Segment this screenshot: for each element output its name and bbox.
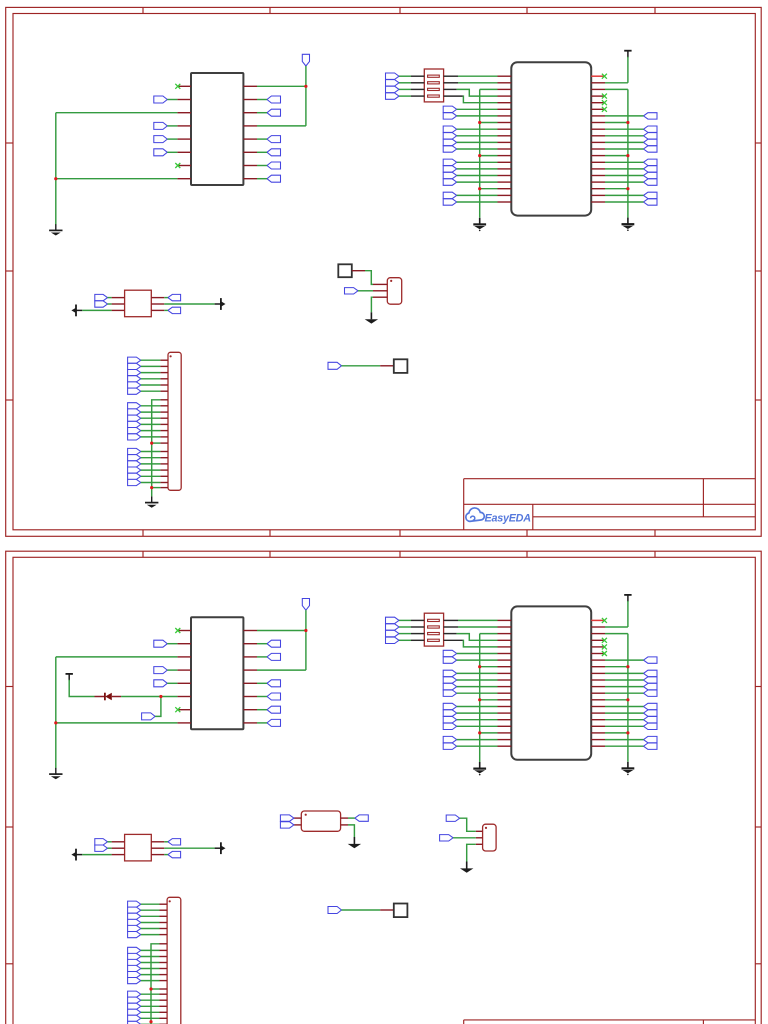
connector J2 xyxy=(167,897,181,1024)
net flag xyxy=(154,122,168,129)
net flag xyxy=(443,139,457,145)
net flag xyxy=(443,179,457,185)
junction xyxy=(626,665,629,668)
wire xyxy=(358,290,373,292)
wire xyxy=(457,194,498,196)
net flag xyxy=(128,370,141,376)
wire xyxy=(164,841,168,843)
net flag xyxy=(386,630,400,636)
wire xyxy=(167,643,177,645)
wire xyxy=(411,82,424,84)
net flag xyxy=(128,953,141,959)
wire xyxy=(605,122,628,124)
no-connect X xyxy=(602,74,607,79)
wire xyxy=(141,949,160,951)
wire xyxy=(605,659,644,661)
net flag xyxy=(644,736,658,742)
net flag xyxy=(443,650,457,656)
net flag xyxy=(128,382,141,388)
junction xyxy=(149,1020,152,1023)
wire xyxy=(480,122,498,124)
wire xyxy=(141,974,160,976)
wire xyxy=(108,847,112,849)
border tick xyxy=(269,530,271,537)
wire xyxy=(141,1017,160,1019)
wire xyxy=(444,82,458,84)
wire xyxy=(371,297,373,312)
wire xyxy=(305,66,307,126)
no-connect X xyxy=(175,84,180,89)
wire xyxy=(444,639,463,641)
net flag xyxy=(128,959,141,965)
net flag xyxy=(128,901,141,907)
no-connect X xyxy=(175,628,180,633)
wire xyxy=(141,956,160,958)
wire xyxy=(141,430,161,432)
TP1 pin xyxy=(352,270,365,272)
wire xyxy=(141,463,161,465)
pin 1 right (highlight) xyxy=(591,619,605,621)
crystal X1 xyxy=(125,290,152,317)
wire xyxy=(82,854,111,856)
net flag xyxy=(267,136,281,143)
junction xyxy=(626,187,629,190)
net flag xyxy=(128,403,141,409)
net flag xyxy=(128,919,141,925)
wire xyxy=(605,115,644,117)
power bar xyxy=(66,674,73,681)
wire xyxy=(164,303,214,305)
wire xyxy=(457,692,498,694)
wire xyxy=(108,297,112,299)
net flag xyxy=(443,677,457,683)
wire xyxy=(164,309,168,311)
wire xyxy=(411,95,424,97)
net flag xyxy=(443,703,457,709)
wire xyxy=(167,669,177,671)
net flag xyxy=(644,192,658,198)
wire xyxy=(457,175,498,177)
power net flag xyxy=(302,599,309,611)
border tick xyxy=(755,270,761,272)
net flag xyxy=(267,640,281,647)
border tick xyxy=(269,551,271,557)
wire xyxy=(141,922,160,924)
junction xyxy=(626,121,629,124)
wire xyxy=(605,626,628,628)
ground xyxy=(622,218,635,231)
wire xyxy=(444,619,458,621)
wire xyxy=(605,699,628,701)
op-amp U3 xyxy=(191,617,243,729)
wire xyxy=(257,165,267,167)
wire xyxy=(457,686,498,688)
net flag xyxy=(644,670,658,676)
net flag xyxy=(128,376,141,382)
net flag xyxy=(128,907,141,913)
net flag xyxy=(443,166,457,172)
wire xyxy=(411,88,424,90)
border tick xyxy=(142,530,144,537)
net flag xyxy=(644,199,658,205)
junction xyxy=(150,486,153,489)
net flag xyxy=(443,657,457,663)
wire xyxy=(457,719,498,721)
net flag xyxy=(386,637,400,643)
wire xyxy=(141,993,160,995)
wire xyxy=(257,99,267,101)
wire xyxy=(141,475,161,477)
net flag xyxy=(280,822,294,828)
wire xyxy=(164,297,168,299)
wire xyxy=(480,102,498,104)
no-connect X xyxy=(602,618,607,623)
wire xyxy=(257,696,267,698)
border tick xyxy=(654,551,656,557)
net flag xyxy=(644,172,658,178)
net flag xyxy=(128,972,141,978)
wire xyxy=(605,148,644,150)
port arrow xyxy=(71,849,82,861)
wire xyxy=(257,151,267,153)
net flag xyxy=(443,710,457,716)
net flag xyxy=(128,932,141,938)
net flag xyxy=(128,965,141,971)
ground xyxy=(473,218,486,231)
net flag xyxy=(328,907,342,914)
net flag xyxy=(644,710,658,716)
wire xyxy=(108,303,112,305)
net flag xyxy=(128,925,141,931)
border tick xyxy=(654,7,656,13)
wire xyxy=(458,82,498,84)
border tick xyxy=(526,551,528,557)
wire xyxy=(151,944,160,1024)
no-connect X xyxy=(602,638,607,643)
MCU U2 xyxy=(511,62,591,215)
wire xyxy=(627,89,629,217)
no-connect X xyxy=(602,94,607,99)
U pins right xyxy=(243,631,257,723)
net flag xyxy=(95,839,108,845)
regulator U5 xyxy=(387,278,401,305)
wire xyxy=(627,57,629,83)
wire xyxy=(411,633,424,635)
net flag xyxy=(644,657,658,663)
border tick xyxy=(755,399,761,401)
wire xyxy=(152,442,161,444)
net flag xyxy=(128,428,141,434)
wire xyxy=(399,633,411,635)
TP pin xyxy=(380,909,394,911)
wire xyxy=(605,679,644,681)
net flag xyxy=(644,723,658,729)
net flag xyxy=(128,473,141,479)
wire xyxy=(457,115,498,117)
wire xyxy=(605,719,644,721)
junction xyxy=(626,731,629,734)
border tick xyxy=(755,686,761,688)
wire xyxy=(69,680,94,697)
wire xyxy=(56,178,178,180)
border tick xyxy=(399,7,401,13)
no-connect X xyxy=(602,100,607,105)
diode D1 xyxy=(95,693,122,701)
wire xyxy=(457,89,498,96)
wire xyxy=(141,482,161,484)
no-connect X xyxy=(175,163,180,168)
wire xyxy=(457,135,498,137)
wire xyxy=(457,168,498,170)
wire xyxy=(152,400,161,497)
net flag xyxy=(95,845,108,851)
wire xyxy=(141,1023,160,1024)
junction xyxy=(626,154,629,157)
sheet inner border xyxy=(13,14,755,530)
wire xyxy=(444,88,457,90)
wire xyxy=(305,610,307,670)
wire xyxy=(480,633,498,635)
net flag xyxy=(168,851,181,857)
wire xyxy=(444,95,463,97)
no-connect X xyxy=(175,707,180,712)
U pins left xyxy=(177,86,191,178)
net flag xyxy=(142,713,156,720)
net flag xyxy=(128,913,141,919)
net flag xyxy=(95,301,108,307)
wire xyxy=(457,128,498,130)
net flag xyxy=(443,159,457,165)
test point TP2 xyxy=(394,904,408,918)
wire xyxy=(605,739,644,741)
wire xyxy=(257,85,306,87)
wire xyxy=(141,934,160,936)
net flag xyxy=(386,617,400,623)
wire xyxy=(605,633,628,635)
border tick xyxy=(6,270,13,272)
net flag xyxy=(443,683,457,689)
wire xyxy=(167,151,177,153)
ground xyxy=(460,862,473,873)
net flag xyxy=(128,467,141,473)
junction xyxy=(626,698,629,701)
port arrow xyxy=(215,842,226,854)
ground xyxy=(622,762,635,775)
wire xyxy=(457,634,498,641)
wire xyxy=(457,108,498,110)
resistor R1 xyxy=(301,811,340,831)
net flag xyxy=(280,815,294,821)
net flag xyxy=(443,113,457,119)
wire xyxy=(444,75,458,77)
net flag xyxy=(267,653,281,660)
net flag xyxy=(386,73,400,79)
wire xyxy=(56,112,178,114)
J pins xyxy=(160,904,168,1024)
net flag xyxy=(154,149,168,156)
wire xyxy=(605,686,644,688)
MCU U4 xyxy=(511,606,591,759)
wire xyxy=(257,125,306,127)
wire xyxy=(141,909,160,911)
U pins left xyxy=(177,631,191,723)
port arrow xyxy=(71,305,82,317)
wire xyxy=(444,633,457,635)
resistor network RN1 xyxy=(424,613,443,646)
wire xyxy=(479,89,481,217)
junction xyxy=(149,987,152,990)
wire xyxy=(141,417,161,419)
wire xyxy=(141,411,161,413)
net flag xyxy=(128,363,141,369)
net flag xyxy=(154,96,168,103)
wire xyxy=(457,659,498,661)
TP pin xyxy=(380,365,394,367)
wire xyxy=(457,181,498,183)
net flag xyxy=(168,839,181,845)
net flag xyxy=(443,126,457,132)
net flag xyxy=(128,388,141,394)
wire xyxy=(257,112,267,114)
wire xyxy=(108,841,112,843)
wire xyxy=(152,487,161,489)
net flag xyxy=(267,719,281,726)
wire xyxy=(605,135,644,137)
ground xyxy=(49,768,62,779)
wire xyxy=(56,656,178,658)
wire xyxy=(348,817,355,819)
junction xyxy=(478,698,481,701)
wire xyxy=(141,384,161,386)
wire xyxy=(605,666,628,668)
net flag xyxy=(128,1003,141,1009)
wire xyxy=(479,634,481,762)
port arrow xyxy=(215,298,226,310)
net flag xyxy=(443,192,457,198)
junction xyxy=(478,731,481,734)
junction xyxy=(54,177,57,180)
net flag xyxy=(128,1021,141,1024)
net flag xyxy=(443,723,457,729)
sheet outer border xyxy=(6,7,762,536)
wire xyxy=(141,999,160,1001)
svg-text:EasyEDA: EasyEDA xyxy=(485,513,532,525)
net flag xyxy=(644,126,658,132)
net flag xyxy=(443,172,457,178)
border tick xyxy=(6,142,13,144)
power bar xyxy=(624,595,631,602)
net flag xyxy=(644,133,658,139)
wire xyxy=(141,365,161,367)
net flag xyxy=(443,146,457,152)
U5 pins xyxy=(373,284,387,297)
wire xyxy=(167,682,177,684)
net flag xyxy=(644,717,658,723)
wire xyxy=(605,155,628,157)
net flag xyxy=(267,149,281,156)
title block xyxy=(464,479,756,530)
U pins right xyxy=(591,627,605,746)
net flag xyxy=(267,680,281,687)
no-connect X xyxy=(602,644,607,649)
junction xyxy=(478,121,481,124)
net flag xyxy=(386,624,400,630)
wire xyxy=(167,99,177,101)
net flag xyxy=(443,670,457,676)
wire xyxy=(457,148,498,150)
wire xyxy=(605,175,644,177)
net flag xyxy=(168,294,181,300)
wire xyxy=(141,928,160,930)
net flag xyxy=(355,815,369,821)
net flag xyxy=(154,136,168,143)
border tick xyxy=(526,530,528,537)
border tick xyxy=(142,551,144,557)
border tick xyxy=(6,826,13,828)
junction xyxy=(304,85,307,88)
wire xyxy=(605,181,644,183)
net flag xyxy=(128,947,141,953)
wire xyxy=(457,672,498,674)
border tick xyxy=(142,7,144,13)
U pins left xyxy=(498,76,512,202)
border tick xyxy=(269,7,271,13)
wire xyxy=(56,722,178,724)
wire xyxy=(605,745,644,747)
wire xyxy=(399,95,411,97)
wire xyxy=(399,639,411,641)
border tick xyxy=(755,826,761,828)
wire xyxy=(458,75,498,77)
wire xyxy=(167,125,177,127)
border tick xyxy=(6,963,13,965)
wire xyxy=(457,745,498,747)
net flag xyxy=(443,717,457,723)
net flag xyxy=(644,139,658,145)
op-amp U1 xyxy=(191,73,243,185)
junction xyxy=(478,187,481,190)
wire xyxy=(457,201,498,203)
wire xyxy=(411,619,424,621)
U pins right xyxy=(243,86,257,178)
wire xyxy=(458,619,498,621)
wire xyxy=(55,657,57,769)
wire xyxy=(605,82,628,84)
wire xyxy=(627,634,629,762)
net flag xyxy=(644,690,658,696)
wire xyxy=(457,653,498,655)
junction xyxy=(150,442,153,445)
wire xyxy=(457,679,498,681)
net flag xyxy=(95,294,108,300)
wire xyxy=(444,626,458,628)
net flag xyxy=(440,835,454,841)
wire xyxy=(605,188,628,190)
wire xyxy=(141,903,160,905)
wire xyxy=(141,436,161,438)
net flag xyxy=(128,991,141,997)
wire xyxy=(457,161,498,163)
wire xyxy=(257,178,267,180)
wire xyxy=(480,732,498,734)
wire xyxy=(121,696,161,698)
R1 pins xyxy=(294,818,348,825)
ground xyxy=(365,312,378,323)
wire xyxy=(605,194,644,196)
net flag xyxy=(443,736,457,742)
wire xyxy=(605,692,644,694)
no-connect X xyxy=(602,651,607,656)
